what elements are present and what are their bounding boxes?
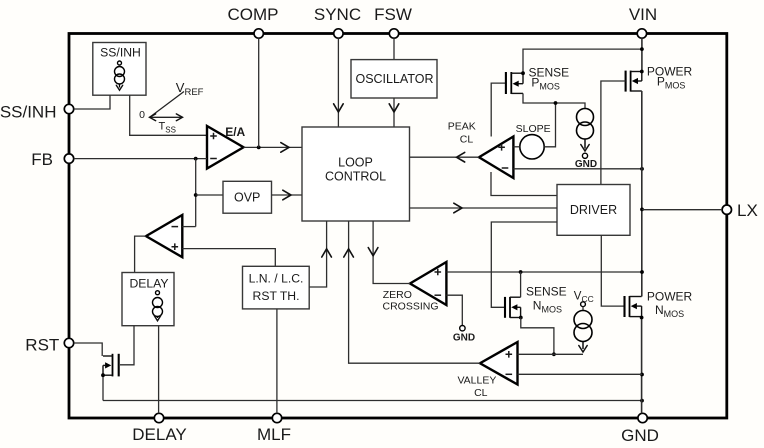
wire PEAK CL to DRIVER enable (491, 172, 557, 196)
wire SENSE PMOS drain to slope current source (523, 93, 585, 108)
svg-text:GND: GND (575, 159, 597, 170)
op-amp E/A input polarity marks (210, 133, 217, 140)
block OSCILLATOR (351, 60, 437, 98)
svg-text:MLF: MLF (257, 425, 291, 444)
wire SENSE PMOS gate to PEAK CL (491, 83, 506, 136)
current source I-VALLEY (574, 311, 592, 342)
current source I-VALLEY arrow (582, 342, 584, 350)
junction POWER PMOS source-bulk (640, 70, 644, 74)
junction valley sense node (552, 352, 556, 356)
supply terminal VCC (581, 302, 586, 307)
wire SENSE PMOS source to VIN rail (523, 49, 642, 73)
current source I-DELAY arrow (157, 317, 159, 319)
junction VIN rail (640, 47, 644, 51)
wire VALLEY CL inverting input to LX node (518, 373, 643, 375)
svg-text:GND: GND (621, 426, 659, 445)
junction SENSE PMOS source-bulk (521, 71, 525, 75)
wire VIN pin down to power stage (641, 38, 643, 71)
current source I-SLOPE arrow (584, 139, 586, 149)
svg-text:FSW: FSW (374, 5, 412, 24)
IC boundary box (69, 34, 727, 419)
wire E/A output to LOOP CONTROL (244, 146, 303, 148)
svg-text:CROSSING: CROSSING (382, 300, 438, 312)
comparator U-RST reset threshold (146, 215, 182, 257)
wire DRIVER to SENSE NMOS gate (491, 222, 557, 307)
ground terminal zero crossing (460, 326, 465, 331)
block LN/LC RST threshold (243, 266, 310, 309)
wire U-RST inverting input to FB node (182, 226, 195, 228)
wire Q-RST source to ground rail (103, 400, 642, 402)
svg-text:SYNC: SYNC (314, 5, 361, 24)
svg-text:SLOPE: SLOPE (516, 123, 551, 135)
current source I-SS (115, 67, 125, 85)
comparator VALLEY CL (480, 342, 518, 385)
transistor POWER PMOS (626, 71, 642, 92)
junction Q-RST source (101, 373, 105, 377)
wire U-RST noninverting input to LN/LC block (182, 249, 275, 267)
wire RST pin to Q-RST drain (74, 343, 103, 356)
wire POWER PMOS gate to DRIVER (601, 81, 626, 185)
comparator U-RST input polarity marks (172, 226, 179, 228)
wire FB node down to OVP and RST comparator (195, 159, 197, 227)
svg-text:PEAK: PEAK (448, 121, 476, 133)
pin VIN (637, 29, 646, 38)
pin RST (64, 338, 73, 347)
wire U-RST output to DELAY block (135, 236, 146, 272)
wire COMP pin down to E/A output (258, 38, 260, 147)
svg-text:DELAY: DELAY (132, 425, 187, 444)
current source I-DELAY terminal (156, 291, 160, 295)
junction OVP branch (194, 193, 198, 197)
block SS/INH soft-start (93, 43, 146, 96)
junction POWER NMOS source-bulk (640, 316, 644, 320)
wire slope circle to PEAK CL noninverting input (513, 146, 519, 148)
svg-text:OSCILLATOR: OSCILLATOR (355, 72, 433, 86)
wire VALLEY CL output to LOOP CONTROL (349, 221, 480, 363)
wire SS/INH block to E/A noninverting input (130, 95, 207, 135)
svg-text:COMP: COMP (228, 5, 279, 24)
wire VCC terminal to current source (582, 307, 584, 311)
svg-text:E/A: E/A (225, 125, 245, 139)
junction LX pin branch (640, 208, 644, 212)
svg-text:SS/INH: SS/INH (100, 46, 141, 60)
svg-text:DRIVER: DRIVER (570, 203, 617, 217)
pin FSW (389, 29, 398, 38)
junction ground rail at GND pin (640, 399, 644, 403)
pin SYNC (334, 29, 343, 38)
current source I-SLOPE (577, 109, 594, 140)
junction slope sense node (554, 101, 558, 105)
comparator VALLEY CL input polarity marks (506, 351, 513, 358)
wire FSW pin to oscillator (393, 38, 395, 59)
wire to OVP input (196, 194, 223, 196)
svg-text:GND: GND (453, 333, 475, 344)
wire slope circle to sense node (544, 103, 555, 147)
svg-text:RST: RST (25, 336, 59, 355)
svg-text:SS/INH: SS/INH (0, 103, 57, 122)
transistor SENSE PMOS (506, 72, 523, 94)
transistor SENSE NMOS (505, 297, 521, 318)
svg-text:POWER: POWER (647, 65, 693, 79)
block LOOP CONTROL (302, 127, 410, 221)
wire ZERO CROSSING output to LOOP CONTROL (373, 221, 410, 284)
svg-text:RST TH.: RST TH. (253, 289, 300, 303)
junction SENSE NMOS source-bulk (519, 316, 523, 320)
pin DELAY (154, 413, 163, 422)
svg-text:CL: CL (474, 387, 488, 399)
wire ZERO CROSSING inverting input to ground (446, 295, 462, 325)
junction SENSE NMOS drain branch (519, 270, 523, 274)
block OVP over-voltage protection (223, 181, 272, 213)
svg-text:LX: LX (737, 201, 758, 220)
svg-text:VALLEY: VALLEY (457, 375, 496, 387)
wire FB to E/A inverting input (74, 158, 207, 160)
svg-text:L.N. / L.C.: L.N. / L.C. (249, 272, 304, 286)
pin MLF (272, 413, 281, 422)
svg-text:FB: FB (31, 150, 53, 169)
wire VALLEY CL noninverting input to sense node (518, 353, 584, 355)
op-amp E/A error amplifier (207, 126, 244, 169)
block DRIVER (557, 185, 630, 236)
svg-text:OVP: OVP (234, 190, 260, 204)
svg-text:CL: CL (460, 134, 474, 146)
comparator ZERO CROSSING (410, 262, 446, 305)
wire ZERO CROSSING noninverting input to LX node (446, 271, 642, 273)
junction E/A output COMP node (257, 146, 261, 150)
wire PEAK CL output to LOOP CONTROL (410, 156, 480, 158)
current source I-SS terminal (118, 61, 122, 65)
wire SS/INH pin to block (74, 95, 110, 109)
slope compensation summing circle (520, 135, 544, 159)
comparator PEAK CL input polarity marks (498, 144, 505, 151)
junction valley limit branch (640, 373, 644, 377)
svg-text:LOOP: LOOP (338, 156, 373, 170)
comparator ZERO CROSSING input polarity marks (435, 269, 442, 276)
transistor Q-RST open-drain NMOS (103, 354, 119, 377)
svg-text:DELAY: DELAY (129, 277, 168, 291)
junction LX vertical zero crossing (640, 270, 644, 274)
time axis arrow TSS (150, 116, 183, 118)
wire LN/LC to MLF pin (276, 309, 278, 413)
wire POWER NMOS source to GND pin (641, 317, 643, 414)
transistor POWER NMOS (625, 296, 642, 317)
comparator PEAK CL (479, 137, 513, 179)
pin COMP (254, 29, 263, 38)
wire DELAY block to RST transistor gate (120, 326, 134, 365)
wire LX node to LX pin (642, 209, 722, 211)
svg-text:CONTROL: CONTROL (325, 170, 386, 184)
svg-text:VIN: VIN (629, 5, 657, 24)
wire DRIVER to POWER NMOS gate (601, 235, 624, 306)
wire Q-RST bulk to source (102, 365, 104, 400)
wire PEAK CL inverting input to LX node (513, 168, 642, 170)
pin GND (638, 413, 647, 422)
wire OVP to LOOP CONTROL (272, 194, 303, 196)
block DELAY (122, 273, 174, 326)
ground terminal I-SLOPE (582, 153, 587, 158)
pin SS/INH (64, 104, 73, 113)
junction LX sense (640, 167, 644, 171)
wire SENSE NMOS drain up to LX sense (520, 272, 522, 297)
wire SENSE NMOS source to valley comparator (521, 318, 554, 355)
wire POWER PMOS drain to LX (641, 91, 643, 297)
svg-text:0: 0 (139, 109, 145, 121)
wire DELAY block to DELAY pin (158, 326, 160, 414)
current source I-SS arrow (119, 84, 121, 88)
pin FB (64, 154, 73, 163)
wire LN/LC to LOOP CONTROL (309, 221, 326, 287)
soft-start ramp line (150, 92, 184, 118)
wire SYNC pin to LOOP CONTROL (337, 38, 339, 127)
svg-text:SENSE: SENSE (526, 285, 567, 299)
svg-text:POWER: POWER (647, 289, 693, 303)
pin LX (722, 205, 731, 214)
current source I-DELAY (153, 298, 163, 317)
wire oscillator to LOOP CONTROL (393, 98, 395, 127)
wire LOOP CONTROL to DRIVER (410, 207, 558, 209)
junction FB branch (194, 157, 198, 161)
